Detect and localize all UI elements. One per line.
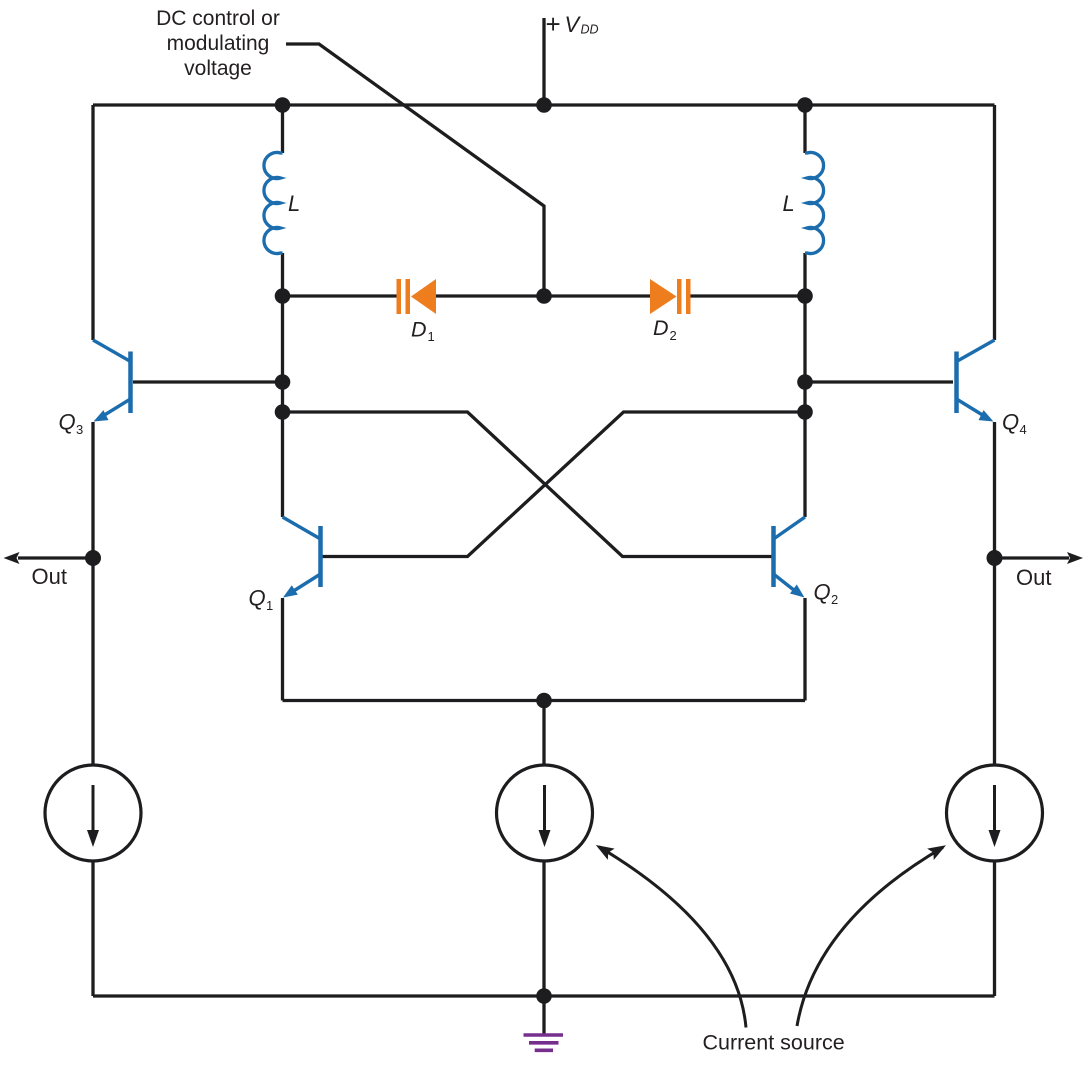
transistor Q1 (283, 517, 321, 595)
inductor L left (264, 152, 283, 253)
wire left out lead (18, 556, 93, 559)
pointer arrow to right current source (797, 847, 943, 1026)
wire right inner column (803, 253, 806, 517)
svg-text:Q: Q (1002, 410, 1019, 435)
wire varactor row right (691, 294, 806, 297)
wire left column lower (91, 861, 94, 996)
node cross-couple left (275, 404, 291, 420)
node bottom rail (536, 988, 552, 1004)
wire right column upper (993, 105, 996, 340)
wire Q2 emitter column (803, 598, 806, 701)
ground (524, 1035, 564, 1050)
wire middle stem lower (542, 861, 545, 996)
varactor D2 (650, 279, 691, 314)
svg-text:Out: Out (32, 564, 67, 589)
inductor L right (805, 152, 824, 253)
svg-text:3: 3 (76, 422, 83, 437)
transistor Q2 (774, 517, 806, 595)
svg-text:DC control or: DC control or (156, 7, 280, 30)
wire DC control leader (286, 44, 544, 296)
svg-text:Q: Q (814, 580, 831, 605)
node at VDD / top rail (536, 97, 552, 113)
svg-text:Out: Out (1016, 565, 1051, 590)
wire left column upper (91, 105, 94, 340)
wire VDD stub (542, 18, 545, 105)
wire left column mid (91, 422, 94, 765)
svg-text:Q: Q (249, 586, 266, 611)
svg-text:L: L (288, 191, 300, 216)
node top rail right inductor (797, 97, 813, 113)
node right out (987, 550, 1003, 566)
node varactor row left (275, 288, 291, 304)
wire Q3 base (133, 380, 283, 383)
node Q4 base rail (797, 374, 813, 390)
wire varactor row center-left (436, 294, 544, 297)
current source I2 (middle) (497, 765, 593, 861)
node top rail left inductor (275, 97, 291, 113)
wire Q4 base (805, 380, 953, 383)
svg-text:Q: Q (59, 410, 76, 435)
svg-text:1: 1 (266, 598, 273, 613)
current source I1 (left) (45, 765, 141, 861)
wire right column lower (993, 861, 996, 996)
svg-text:4: 4 (1020, 422, 1027, 437)
svg-text:D: D (653, 316, 669, 340)
wire varactor row center-right (544, 294, 650, 297)
svg-text:2: 2 (831, 592, 838, 607)
svg-text:2: 2 (670, 328, 677, 343)
varactor D1 (397, 279, 437, 314)
node varactor row center (536, 288, 552, 304)
wire cross-couple left-top to Q2 base (283, 412, 772, 557)
current source I3 (right) (947, 765, 1043, 861)
node left out (85, 550, 101, 566)
svg-text:DD: DD (581, 23, 599, 37)
node Q3 base rail (275, 374, 291, 390)
wire middle stem upper (542, 701, 545, 766)
wire varactor row left (283, 294, 397, 297)
wire Q1 emitter column (281, 598, 284, 701)
transistor Q3 (93, 340, 131, 419)
wire right out lead (995, 556, 1070, 559)
wire cross-couple right-top to Q1 base (323, 412, 806, 557)
wire top rail (93, 103, 995, 106)
svg-text:1: 1 (428, 329, 435, 344)
wire left inner column (281, 253, 284, 517)
node varactor row right (797, 288, 813, 304)
svg-text:voltage: voltage (184, 57, 252, 80)
svg-text:L: L (783, 191, 795, 216)
wire left inductor top lead (281, 105, 284, 153)
label DC control or modulating voltage (156, 7, 280, 80)
svg-text:V: V (565, 12, 582, 37)
arrowhead right Out (1067, 552, 1083, 564)
svg-text:modulating: modulating (167, 32, 270, 55)
wire bottom rail (93, 994, 995, 997)
wire ground stem (542, 996, 545, 1034)
pointer arrow to middle current source (599, 847, 746, 1028)
transistor Q4 (957, 340, 995, 419)
svg-text:D: D (411, 318, 427, 342)
node cross-couple right (797, 404, 813, 420)
arrowhead left Out (4, 552, 20, 564)
wire right inductor top lead (803, 105, 806, 153)
wire right column mid (993, 422, 996, 765)
wire emitter bus (283, 699, 806, 702)
svg-text:Current source: Current source (703, 1031, 845, 1055)
svg-text:+: + (546, 9, 561, 39)
node emitter bus (536, 693, 552, 709)
